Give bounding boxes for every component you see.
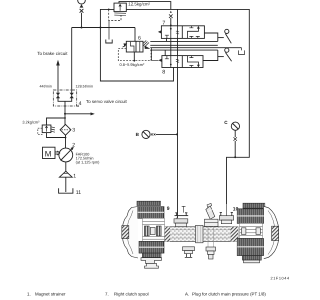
- wire relief 5 drain: [47, 133, 66, 138]
- wire main feed vertical x71.7: [71, 28, 73, 92]
- wire supply vA between valves: [170, 38, 172, 55]
- wire plug B to supply: [156, 133, 177, 135]
- right clutch mid hub: [240, 223, 263, 238]
- svg-text:To brake circuit: To brake circuit: [37, 51, 68, 56]
- right clutch upper plate stack: [237, 209, 264, 224]
- wire relief drain: [108, 21, 110, 40]
- node junction 108.7,9.4: [108, 9, 110, 11]
- valve 8 left cell internals: [171, 56, 178, 68]
- wire valve7 right out: [204, 33, 217, 41]
- svg-text:3.2kg/cm²: 3.2kg/cm²: [22, 120, 40, 125]
- right bell housing: [264, 206, 279, 258]
- relief valve spring: [114, 13, 126, 16]
- right clutch bottom bracket: [244, 260, 260, 263]
- wire pilot to valve8 actuator: [152, 48, 159, 61]
- relief valve arrow: [119, 4, 121, 10]
- filter 3 diamond: [60, 124, 71, 135]
- svg-text:21F1044: 21F1044: [271, 276, 290, 280]
- valve 8 right cell internals: [188, 56, 199, 67]
- svg-text:128.5ℓ/min: 128.5ℓ/min: [76, 85, 93, 89]
- svg-text:6: 6: [138, 35, 141, 41]
- node junction at 100.4,27.5: [99, 27, 101, 29]
- wire filter to pump: [65, 135, 67, 148]
- svg-text:(at 1,125 rpm): (at 1,125 rpm): [76, 160, 101, 164]
- left clutch mid hub: [143, 218, 165, 241]
- wire to valve6 from main line: [134, 28, 136, 42]
- svg-text:To servo valve circuit: To servo valve circuit: [86, 99, 128, 104]
- svg-text:12.5kg/cm²: 12.5kg/cm²: [128, 2, 150, 7]
- valve 7 right cell internals: [188, 27, 199, 39]
- relief pilot dashed: [109, 9, 121, 20]
- modulating valve 6 body: [126, 41, 143, 52]
- wire bus line L4: [150, 49, 218, 51]
- relief valve 5 box: [42, 125, 51, 133]
- supply arrow up to relief: [170, 11, 172, 13]
- relief 5 pilot dashed: [38, 128, 43, 135]
- right feed fitting: [219, 204, 233, 224]
- clutch spool valve 8 body: [162, 56, 203, 68]
- vent arrow: [80, 4, 84, 7]
- motor M box: [43, 147, 56, 158]
- svg-text:M: M: [45, 150, 52, 159]
- svg-text:9: 9: [167, 206, 170, 212]
- svg-text:0.8~5.9kg/cm²: 0.8~5.9kg/cm²: [120, 62, 145, 67]
- valve 7 left actuator: [158, 30, 162, 33]
- left feed fitting: [174, 206, 188, 226]
- port arrow valve7 top: [170, 24, 172, 26]
- tank symbol right: [238, 48, 244, 55]
- wire bus line L2: [150, 44, 218, 46]
- left clutch lower plate stack: [139, 241, 164, 253]
- wire bus line L1: [150, 40, 218, 42]
- pressure switch bottom: [218, 56, 224, 58]
- strainer 1 triangle: [59, 171, 72, 177]
- left clutch bottom bracket: [141, 258, 162, 264]
- flow divider orifices: [57, 92, 59, 99]
- valve 6 left actuator arrow: [123, 44, 127, 48]
- bypass relief 5 wire: [47, 118, 66, 125]
- wire main supply down to axle: [177, 38, 179, 218]
- svg-text:B: B: [136, 132, 140, 137]
- valve 7 left cell internals: [171, 26, 178, 39]
- left clutch top hub bar: [137, 201, 161, 205]
- pump shaft: [55, 152, 59, 154]
- left clutch pack 9: [122, 201, 165, 268]
- shift lever fork: [205, 203, 219, 259]
- right clutch lower plate stack: [237, 238, 264, 255]
- wire servo tap: [65, 113, 91, 115]
- svg-text:1: 1: [73, 173, 76, 179]
- wire vent line down: [81, 13, 83, 28]
- svg-text:Magnet strainer: Magnet strainer: [35, 291, 66, 296]
- right clutch top hub bar: [243, 203, 265, 208]
- valve 6 right spring and pilot box: [143, 41, 149, 48]
- wire supply down to valve7: [170, 18, 172, 26]
- wire valve7 bottom stub: [166, 38, 168, 41]
- svg-text:1.: 1.: [27, 291, 31, 296]
- valve 8 left actuator: [158, 59, 162, 62]
- legend row: [27, 291, 266, 296]
- right clutch bottom hub bar: [243, 256, 262, 260]
- wire pump inlet: [65, 162, 67, 171]
- pressure switch top: [218, 37, 224, 39]
- wire valve8 top stub: [164, 50, 166, 56]
- right clutch pack 10: [237, 203, 278, 263]
- svg-text:8: 8: [162, 69, 165, 75]
- left clutch upper plate stack: [138, 207, 164, 219]
- svg-text:Right clutch spool: Right clutch spool: [114, 291, 149, 296]
- pump 2: [59, 148, 73, 162]
- svg-text:Plug for clutch main pressure: Plug for clutch main pressure (PT 1/8): [192, 291, 266, 296]
- valve 6 pilot dashed lines: [118, 49, 151, 61]
- node junction at 81.5,27.5: [81, 27, 83, 29]
- wire valve8 right out: [203, 50, 218, 60]
- svg-text:44ℓ/min: 44ℓ/min: [40, 85, 52, 89]
- left bell housing: [123, 207, 139, 259]
- wire divider outlet down: [64, 101, 66, 125]
- svg-text:7: 7: [162, 20, 165, 26]
- relief valve 12.5kg box: [114, 3, 126, 12]
- wire valve6 bottom drain: [133, 52, 135, 61]
- valve 6 internal path: [131, 42, 140, 52]
- axle center shaft: [163, 227, 238, 242]
- tank 11: [59, 188, 73, 193]
- clutch spool valve 7 body: [161, 26, 204, 39]
- flow divider 4 box: [53, 90, 76, 106]
- wire brake circuit arrow: [57, 65, 59, 92]
- shaft collar: [196, 225, 204, 242]
- svg-text:C: C: [224, 120, 228, 125]
- svg-text:2: 2: [72, 142, 75, 148]
- vent plug x symbol: [80, 9, 84, 13]
- vent breather circle top: [78, 0, 86, 4]
- wire second supply from box top: [177, 9, 179, 25]
- svg-text:4: 4: [79, 101, 82, 107]
- tank symbol drain: [106, 40, 112, 44]
- valve enclosure box: [100, 9, 173, 81]
- svg-text:3: 3: [72, 128, 75, 134]
- svg-text:7.: 7.: [105, 291, 109, 296]
- svg-text:11: 11: [76, 190, 81, 196]
- wire relief outlet to supply: [119, 2, 171, 10]
- svg-text:A.: A.: [185, 291, 189, 296]
- bottom fitting under shaft: [183, 247, 195, 258]
- wire plug C down: [234, 130, 236, 157]
- plug x on supply line: [169, 14, 173, 18]
- relief valve 5 spring: [51, 127, 55, 132]
- left clutch bottom hub bar: [143, 253, 162, 257]
- wire strainer to tank: [65, 177, 67, 192]
- node junction 134.3,60.7: [133, 60, 135, 62]
- flow divider internal U: [58, 98, 72, 101]
- wire bus line L3 tank return: [150, 47, 241, 49]
- wire main top horizontal y27.5: [72, 27, 135, 29]
